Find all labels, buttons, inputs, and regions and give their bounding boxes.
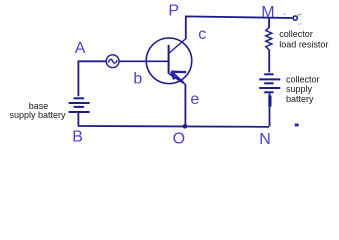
AC source circle: [106, 55, 119, 68]
emitter arrow shaft: [171, 72, 184, 83]
svg-text:b: b: [133, 71, 142, 88]
svg-text:supply: supply: [286, 84, 313, 94]
svg-text:load resistor: load resistor: [279, 40, 328, 50]
wire battery B1 to B corner: [77, 113, 79, 127]
wire resistor to battery: [268, 50, 270, 73]
artifact gray dash right of terminal: [297, 14, 301, 15]
battery B1 short plate 1: [74, 97, 85, 99]
transistor circle: [146, 38, 192, 84]
svg-text:c: c: [198, 26, 206, 43]
transistor base bar: [168, 45, 170, 74]
battery B2 short plate 1: [264, 73, 273, 75]
battery B2 short plate 3: [264, 91, 273, 93]
svg-text:O: O: [173, 130, 185, 147]
svg-text:battery: battery: [286, 94, 314, 104]
svg-text:B: B: [72, 129, 83, 146]
AC source sine wave: [108, 59, 117, 63]
transistor collector diagonal: [169, 38, 187, 53]
transistor emitter diagonal: [169, 74, 186, 85]
battery terminal stub thick: [268, 95, 271, 106]
battery B1 short plate 2: [74, 106, 85, 108]
battery B1 long plate 2: [69, 111, 90, 113]
emitter arrow barb horizontal: [171, 71, 186, 74]
svg-text:e: e: [190, 91, 199, 108]
wire M down to resistor: [268, 18, 270, 27]
output terminal circle: [293, 16, 297, 20]
artifact gray dash left of terminal: [284, 13, 286, 15]
svg-text:M: M: [261, 4, 274, 21]
wire left rail A corner down to battery: [77, 61, 79, 97]
svg-text:N: N: [259, 131, 271, 148]
battery B2 long plate 2: [259, 87, 280, 89]
svg-text:supply battery: supply battery: [9, 110, 66, 120]
emitter arrow barb down: [171, 72, 174, 80]
resistor collector load: [266, 27, 272, 50]
blue square mark right of N: [295, 124, 299, 127]
wire battery to N corner: [269, 93, 271, 126]
wire bottom rail B to O to N: [78, 125, 269, 128]
wire emitter down to O: [184, 85, 186, 127]
artifact gray dash below terminal: [298, 23, 302, 26]
wire A to AC source: [78, 60, 107, 62]
battery B2 short plate 2: [264, 82, 273, 84]
svg-text:collector: collector: [279, 29, 313, 39]
wire top rail P to M to terminal: [186, 16, 293, 38]
svg-text:A: A: [75, 40, 86, 57]
junction dot at O: [183, 124, 188, 129]
svg-text:collector: collector: [286, 75, 320, 85]
wire AC source to base: [120, 60, 169, 62]
battery B1 long plate 1: [69, 102, 90, 104]
svg-text:P: P: [168, 3, 179, 20]
battery B2 long plate 1: [259, 78, 280, 80]
